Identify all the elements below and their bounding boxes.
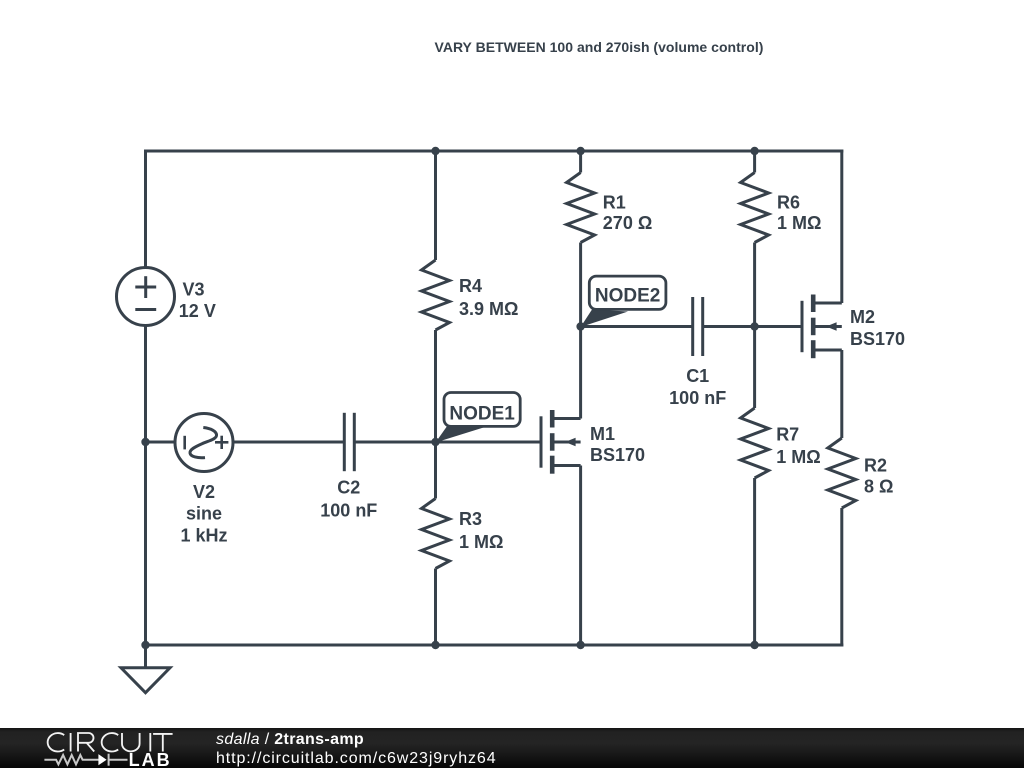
- resistor R6: [741, 173, 769, 243]
- capacitor C2: [344, 413, 354, 471]
- svg-text:C2: C2: [337, 477, 360, 497]
- junction bottom ground: [141, 641, 149, 649]
- wire bottom rail: [144, 644, 843, 647]
- svg-text:3.9 MΩ: 3.9 MΩ: [459, 299, 518, 319]
- resistor R7: [741, 408, 769, 478]
- node NODE1 flag: [436, 393, 521, 443]
- resistor R3: [422, 499, 450, 569]
- wire junction to M2 gate: [755, 325, 802, 328]
- node NODE2 flag: [581, 276, 666, 327]
- wire R7 top lead: [753, 327, 756, 409]
- footer bar: [0, 728, 1024, 768]
- wire R1 to node2: [579, 243, 582, 327]
- junction top R6: [750, 147, 758, 155]
- svg-text:270 Ω: 270 Ω: [603, 213, 652, 233]
- svg-text:NODE1: NODE1: [449, 404, 515, 425]
- svg-text:1 MΩ: 1 MΩ: [777, 213, 821, 233]
- junction top R1: [576, 147, 584, 155]
- wire M2 source to R2: [840, 350, 843, 438]
- svg-text:R6: R6: [777, 192, 800, 212]
- wire node2 to C1: [581, 325, 693, 328]
- junction bottom M1: [576, 641, 584, 649]
- junction M2 gate: [750, 322, 758, 330]
- svg-text:1 kHz: 1 kHz: [180, 526, 227, 546]
- svg-text:LAB: LAB: [129, 750, 172, 768]
- wire ground lead: [144, 645, 147, 668]
- junction left rail V2: [141, 438, 149, 446]
- svg-text:V3: V3: [183, 280, 205, 300]
- junction bottom R3: [431, 641, 439, 649]
- svg-text:1 MΩ: 1 MΩ: [776, 447, 820, 467]
- transistor M2: [802, 295, 842, 359]
- svg-text:BS170: BS170: [850, 329, 905, 349]
- wire top rail: [144, 150, 843, 153]
- resistor R2: [828, 438, 856, 508]
- svg-text:R1: R1: [603, 192, 626, 212]
- capacitor C1: [693, 297, 703, 356]
- svg-text:R4: R4: [459, 276, 482, 296]
- junction node2: [576, 322, 584, 330]
- svg-text:8 Ω: 8 Ω: [864, 477, 893, 497]
- wire R1 top lead: [579, 151, 582, 173]
- wire M1 source to bottom rail: [579, 466, 582, 646]
- wire R4 top lead: [434, 151, 437, 260]
- svg-text:12 V: 12 V: [179, 301, 216, 321]
- svg-text:100 nF: 100 nF: [669, 388, 726, 408]
- wire R2 bottom lead: [840, 508, 843, 647]
- CircuitLab logo: [0, 727, 180, 768]
- wire R7 bottom lead: [753, 478, 756, 645]
- wire left rail lower: [144, 326, 147, 646]
- footer text: [216, 731, 497, 768]
- voltage source V2 (sine): [175, 414, 233, 472]
- wire R4 bottom lead: [434, 330, 437, 442]
- svg-text:R7: R7: [776, 425, 799, 445]
- svg-text:V2: V2: [193, 482, 215, 502]
- junction top R4: [431, 147, 439, 155]
- wire left rail upper: [144, 151, 147, 268]
- wire node1 to M1 gate: [436, 441, 542, 444]
- resistor R1: [567, 173, 595, 243]
- voltage source V3: [117, 268, 175, 326]
- svg-text:R2: R2: [864, 455, 887, 475]
- svg-text:sine: sine: [186, 504, 222, 524]
- svg-text:M1: M1: [590, 424, 615, 444]
- svg-text:C1: C1: [686, 366, 709, 386]
- svg-text:BS170: BS170: [590, 445, 645, 465]
- svg-text:M2: M2: [850, 307, 875, 327]
- wire R6 bottom lead: [753, 243, 756, 327]
- svg-text:VARY BETWEEN 100 and 270ish (v: VARY BETWEEN 100 and 270ish (volume cont…: [435, 39, 764, 55]
- wire M2 drain to top rail: [840, 150, 843, 304]
- transistor M1: [541, 410, 581, 474]
- wire R6 top lead: [753, 151, 756, 173]
- junction bottom R7: [750, 641, 758, 649]
- svg-text:100 nF: 100 nF: [320, 500, 377, 520]
- wire V2 to C2: [233, 441, 344, 444]
- wire R3 top lead: [434, 442, 437, 499]
- svg-text:R3: R3: [459, 509, 482, 529]
- svg-text:NODE2: NODE2: [595, 285, 660, 306]
- wire M1 drain to node2: [579, 327, 582, 419]
- junction node1: [431, 438, 439, 446]
- resistor R4: [422, 260, 450, 330]
- svg-text:1 MΩ: 1 MΩ: [459, 532, 503, 552]
- wire C1 to junction: [703, 325, 755, 328]
- wire C2 to node1: [354, 441, 435, 444]
- wire V2 left lead: [146, 441, 176, 444]
- wire R3 bottom lead: [434, 569, 437, 646]
- ground: [121, 668, 170, 693]
